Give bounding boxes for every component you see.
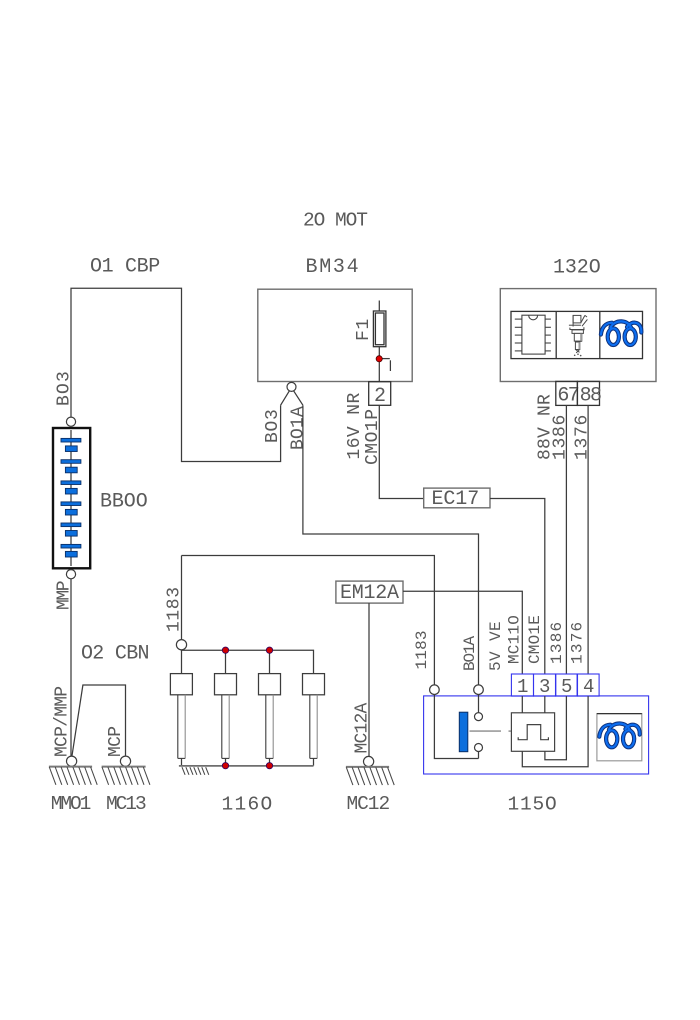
svg-text:5V VE: 5V VE <box>487 621 505 671</box>
wire EM12A to MC12 <box>368 603 370 756</box>
svg-text:1386: 1386 <box>548 621 566 664</box>
node circle 1183 <box>176 640 186 650</box>
fuse F1 wire top <box>378 301 380 312</box>
box EM12A <box>336 581 403 603</box>
connector pin 3 box <box>534 674 556 696</box>
box 1320 <box>500 289 656 382</box>
connector pin 1 box <box>511 674 533 696</box>
battery BB00 box <box>70 430 72 566</box>
box BM34 <box>258 289 412 381</box>
svg-text:CMO1P: CMO1P <box>363 408 383 465</box>
svg-text:BO1A: BO1A <box>461 635 479 671</box>
wire pin2 to EC17 <box>379 405 423 498</box>
ground MC12 <box>364 756 374 766</box>
wire B01A down and right <box>303 405 479 685</box>
box 1150 (blue) <box>424 696 649 774</box>
wire EM12A to pin1 <box>403 591 522 674</box>
ground MM01 <box>67 756 77 766</box>
svg-text:BO3: BO3 <box>55 370 75 406</box>
svg-text:2O MOT: 2O MOT <box>303 210 367 232</box>
injector bottom rail <box>179 765 314 767</box>
svg-text:O2 CBN: O2 CBN <box>81 643 149 666</box>
relay coil bar (blue) <box>459 712 468 752</box>
square wave symbol <box>518 725 548 740</box>
svg-text:115O: 115O <box>508 794 558 816</box>
svg-text:4: 4 <box>583 676 594 698</box>
injector stubs to bottom rail <box>182 758 314 765</box>
stub right of junction <box>379 358 390 360</box>
wire pin4 to pulse box bottom <box>522 696 588 767</box>
connector pin 88 box <box>577 381 599 405</box>
wire 67 to pin5 <box>565 405 567 674</box>
svg-text:MC11O: MC11O <box>506 615 524 664</box>
wire 02 CBN bracket <box>72 685 126 756</box>
wire split left <box>281 391 290 405</box>
wire 01 CBP loop <box>71 288 281 461</box>
svg-text:16V NR: 16V NR <box>345 392 365 459</box>
injectors 1160 (4x) <box>170 674 324 695</box>
junction dot (red) <box>376 356 382 362</box>
connector pin 67 box <box>556 381 578 405</box>
svg-text:BO1A: BO1A <box>289 406 309 450</box>
ground hatch under 1160 rail <box>182 767 209 775</box>
battery cells <box>61 438 81 557</box>
svg-text:EC17: EC17 <box>432 488 480 511</box>
inner icon row of 1320 <box>511 311 643 358</box>
wire fuse to box bottom <box>378 347 380 382</box>
svg-text:1386: 1386 <box>551 414 571 460</box>
svg-text:MMO1: MMO1 <box>51 793 91 815</box>
svg-text:67: 67 <box>557 385 578 408</box>
injector icon in 1320 <box>569 315 588 353</box>
svg-text:5: 5 <box>561 676 572 698</box>
wire 1183 into relay <box>434 695 478 759</box>
svg-text:F1: F1 <box>354 318 374 341</box>
coil box in 1150 <box>597 714 642 761</box>
node circle B01A at 1150 <box>474 685 484 695</box>
fuse F1 <box>373 311 386 347</box>
pulse generator box <box>511 713 554 752</box>
contact circle bottom <box>475 744 483 752</box>
connector pin 2 box <box>369 382 391 406</box>
node circle battery bottom <box>66 570 75 579</box>
connector pin 5 box <box>556 674 577 696</box>
svg-text:CMO1E: CMO1E <box>526 615 544 664</box>
IC chip icon <box>515 315 551 354</box>
svg-text:1: 1 <box>517 676 528 698</box>
svg-text:116O: 116O <box>222 794 274 816</box>
connector pin 4 box <box>578 674 600 696</box>
junction dots bottom rail <box>222 763 228 769</box>
svg-text:2: 2 <box>374 385 386 408</box>
svg-text:MCP/MMP: MCP/MMP <box>53 687 73 757</box>
wire pin1 to pulse box <box>521 696 523 713</box>
svg-text:BBOO: BBOO <box>100 491 148 514</box>
injector rail top <box>182 650 314 674</box>
svg-text:MC12A: MC12A <box>353 702 373 753</box>
svg-text:EM12A: EM12A <box>340 582 399 605</box>
svg-text:MC13: MC13 <box>106 793 146 815</box>
wire bus to injectors <box>182 556 435 685</box>
wire 88 to pin4 <box>587 405 589 674</box>
svg-text:BO3: BO3 <box>263 408 283 443</box>
svg-text:1376: 1376 <box>573 414 593 460</box>
svg-text:88: 88 <box>580 385 601 408</box>
svg-text:1183: 1183 <box>413 630 431 669</box>
node circle 1183 at 1150 <box>430 685 440 695</box>
svg-text:BM34: BM34 <box>306 256 361 279</box>
svg-text:MC12: MC12 <box>347 793 390 815</box>
wire EC17 to pin3 <box>490 499 545 675</box>
wire B01A into contact <box>478 695 480 713</box>
mechanical link (gray) <box>470 730 502 732</box>
coil icon in 1320 (blue) <box>601 321 641 345</box>
node circle B03/B01A under BM34 <box>287 382 296 391</box>
node circle battery top <box>66 417 75 426</box>
coil icon in 1150 (blue) <box>599 723 639 747</box>
wire pin5 to pulse box bottom <box>545 696 567 760</box>
junction dots on top rail <box>222 647 228 653</box>
svg-text:O1 CBP: O1 CBP <box>90 256 160 279</box>
svg-text:1376: 1376 <box>569 621 587 664</box>
svg-text:MCP: MCP <box>106 727 126 757</box>
svg-text:3: 3 <box>539 676 550 698</box>
svg-text:132O: 132O <box>553 257 601 280</box>
wire split right <box>294 391 303 405</box>
wire battery to MM01 <box>70 579 72 756</box>
ground MC13 <box>120 756 130 766</box>
wire pin3 to pulse box <box>544 696 546 713</box>
contact circle top <box>475 713 483 721</box>
box EC17 <box>424 488 490 508</box>
